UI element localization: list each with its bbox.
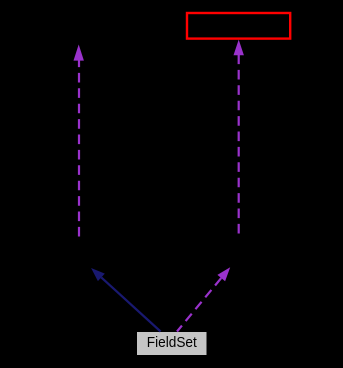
edge: dashed usage arrow (darkorchid) from FieldSet up-right bbox=[177, 267, 230, 331]
edge: solid inheritance arrow (midnightblue) from FieldSet up-left bbox=[91, 268, 161, 332]
node: red-bordered class box (top right) bbox=[187, 13, 290, 39]
edge: dashed usage arrow, right vertical (darkorchid) into red box bbox=[234, 40, 244, 236]
node: FieldSet (current class, grey box) bbox=[137, 332, 207, 355]
edge: dashed usage arrow, left vertical (darkorchid) bbox=[74, 45, 84, 243]
svg-text:FieldSet: FieldSet bbox=[147, 334, 198, 351]
